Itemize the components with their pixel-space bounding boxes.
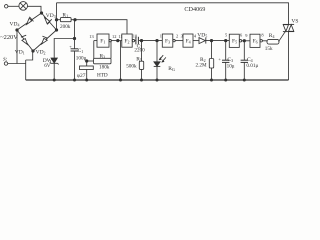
node F1-F2 [117, 39, 119, 41]
node piezo [86, 60, 88, 62]
diode VD5 [199, 38, 206, 44]
svg-text:CD4069: CD4069 [184, 6, 205, 13]
node R2 [210, 39, 212, 41]
svg-text:0.01μ: 0.01μ [246, 63, 258, 69]
wire R1 left [57, 19, 61, 21]
svg-text:10μ: 10μ [227, 64, 235, 70]
bus junction dots [53, 79, 55, 81]
node photodiode [156, 39, 158, 41]
svg-text:VD3: VD3 [46, 13, 56, 19]
wire F6 out to R4 [262, 40, 267, 43]
piezo sounder HTD [80, 66, 94, 70]
svg-text:15k: 15k [265, 46, 273, 52]
svg-text:180k: 180k [99, 64, 110, 70]
svg-text:火: 火 [3, 57, 8, 62]
svg-text:2.2M: 2.2M [196, 63, 207, 69]
svg-text:R1: R1 [62, 13, 68, 19]
diode VD3 (upper-right arm) [45, 18, 52, 25]
svg-text:F3: F3 [165, 38, 170, 44]
node C3 [225, 39, 227, 41]
diode VD4 (upper-left arm) [27, 17, 34, 25]
bridge arm L-T [17, 13, 42, 30]
wire R1 output to VDD drop [71, 20, 127, 34]
wire R5 to bus [141, 69, 143, 80]
bubble F5 output [239, 40, 241, 42]
svg-text:500k: 500k [126, 63, 137, 69]
wire piezo top [86, 61, 88, 66]
bridge arm L-B [17, 30, 33, 51]
svg-text:12: 12 [112, 34, 116, 39]
svg-text:VD2: VD2 [36, 49, 46, 55]
svg-text:C1: C1 [78, 48, 84, 54]
inverter F5 [229, 34, 239, 47]
wire bottom vertex jog to ground bus [26, 51, 33, 80]
wire R3 feedback right [110, 41, 112, 59]
svg-text:VD5: VD5 [197, 32, 207, 38]
resistor R5 [139, 61, 143, 69]
svg-text:φ27: φ27 [77, 73, 86, 79]
resistor R1 [60, 18, 71, 22]
photodiode RG [154, 55, 166, 66]
node zener branch [73, 37, 75, 39]
svg-text:VD1: VD1 [15, 49, 25, 55]
wire R5 top [141, 41, 143, 62]
svg-text:6V: 6V [44, 63, 51, 69]
wire F5 out to F6 in [242, 40, 250, 42]
svg-text:1: 1 [160, 34, 162, 39]
capacitor C2 [136, 37, 139, 45]
bubble F6 output [260, 40, 262, 42]
svg-text:RG: RG [168, 66, 175, 72]
inverter F1 [97, 34, 109, 47]
svg-text:R5: R5 [136, 56, 142, 62]
wire piezo node [87, 60, 94, 62]
svg-text:11: 11 [118, 34, 122, 39]
svg-text:13: 13 [89, 34, 94, 39]
terminal (bottom mains input) [4, 62, 7, 65]
bridge arm T-R [42, 13, 57, 30]
svg-text:6: 6 [240, 32, 243, 37]
wire C1 to bus [74, 51, 76, 80]
svg-text:VD4: VD4 [10, 21, 20, 27]
wire F1 input stub [94, 40, 97, 42]
svg-text:R4: R4 [269, 33, 275, 39]
wire bridge+ up to rail and R1 [56, 3, 58, 30]
svg-text:F1: F1 [100, 38, 105, 44]
node R5 [140, 39, 142, 41]
node: bridge right vertex [55, 29, 57, 31]
wire F4 out to VD5 [193, 40, 199, 42]
wire C4 to bus [243, 62, 245, 80]
wire photodiode top [156, 41, 158, 62]
capacitor C3 (electrolytic) [222, 60, 229, 62]
svg-text:100μ: 100μ [76, 56, 87, 62]
wire top supply rail to triac [57, 3, 289, 25]
inverter F6 [250, 34, 260, 47]
bubble F2 output [132, 39, 134, 41]
wire R3 feedback left [93, 41, 95, 59]
svg-text:F6: F6 [253, 39, 258, 45]
capacitor C4 [241, 60, 248, 62]
wire triac to bus [288, 32, 290, 80]
wire F2 out to C2 [135, 40, 136, 42]
svg-text:+: + [218, 56, 221, 61]
resistor R3 [94, 58, 112, 64]
wire C3 top [225, 41, 227, 61]
svg-text:8: 8 [261, 32, 264, 37]
wire lamp to bridge top vertex [28, 6, 42, 12]
zener diode DW [50, 58, 59, 65]
node: bridge left vertex [16, 29, 18, 31]
wire F1 out to F2 in [111, 40, 121, 42]
node: bridge bottom vertex [32, 50, 34, 52]
wire bottom terminal to ground drop [8, 63, 26, 65]
diode VD2 (lower-right arm) [42, 36, 48, 44]
wire pin7 ground [120, 41, 122, 80]
inverter F2 [122, 34, 132, 47]
ground bus wire [26, 79, 289, 81]
svg-text:F2: F2 [124, 38, 129, 44]
wire C3 to bus [225, 62, 227, 80]
wire photodiode to bus [156, 66, 158, 80]
wire VDD down to C1 [74, 20, 76, 49]
svg-text:HTD: HTD [97, 73, 108, 79]
terminal (top mains input) [5, 5, 8, 8]
wire terminal to lamp [8, 5, 19, 7]
inverter F3 [162, 34, 173, 47]
wire R2 top [211, 41, 213, 59]
bridge arm B-R [33, 30, 57, 51]
resistor R4 [267, 39, 279, 44]
svg-text:200k: 200k [60, 24, 71, 30]
wire piezo to bus [86, 70, 88, 81]
svg-text:~220V: ~220V [0, 34, 18, 41]
lamp EL (circle with X) [19, 2, 28, 11]
svg-text:F5: F5 [232, 39, 237, 45]
svg-text:9: 9 [245, 33, 248, 38]
wire zener branch [54, 39, 74, 59]
wire gate to triac [279, 32, 286, 42]
node junction R1 left [55, 19, 57, 21]
node: bridge top vertex [40, 12, 42, 14]
svg-text:2200: 2200 [134, 48, 145, 54]
wire VD5 to F5 [206, 40, 230, 42]
svg-text:F4: F4 [186, 38, 191, 44]
svg-text:R3: R3 [100, 53, 106, 59]
svg-text:5: 5 [225, 33, 228, 38]
wire left vertex down to lower terminal wire [16, 30, 18, 64]
diode VD1 (lower-left arm) [21, 35, 28, 44]
svg-text:2: 2 [176, 34, 178, 39]
wire F3 out to F4 in [175, 40, 183, 42]
wire C4 top [243, 41, 245, 60]
inverter F4 [183, 34, 193, 47]
svg-text:10: 10 [133, 34, 138, 39]
wire R2 to bus [211, 68, 213, 80]
capacitor C1 (electrolytic) [71, 49, 79, 51]
triac VS [283, 24, 294, 31]
wire C2 to F3 [139, 40, 162, 42]
svg-text:C3: C3 [227, 57, 233, 63]
resistor R2 [209, 59, 213, 69]
bubble F3 output [173, 39, 175, 41]
bubble F1 output [109, 39, 111, 41]
node VDD [74, 19, 76, 21]
node C4 [243, 40, 245, 42]
svg-text:VS: VS [291, 18, 298, 24]
wire zener to bus [53, 63, 55, 80]
